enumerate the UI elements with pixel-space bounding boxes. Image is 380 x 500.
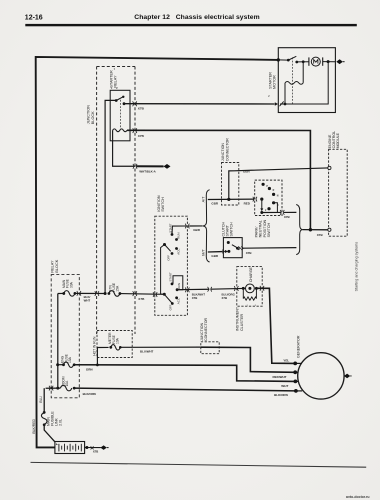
svg-text:HOT IN RUN: HOT IN RUN	[92, 336, 96, 356]
battery plus terminal label	[56, 442, 58, 446]
svg-text:ENGFUSE15A: ENGFUSE15A	[61, 353, 72, 363]
connector at junction block edge (relay sw out)	[133, 101, 137, 106]
wire label YEL	[283, 359, 289, 363]
instrument cluster label	[236, 306, 244, 331]
branch label M/T	[202, 248, 206, 255]
svg-text:ENGINECONTROLMODULE: ENGINECONTROLMODULE	[328, 131, 340, 149]
svg-text:WHT: WHT	[84, 299, 91, 303]
fuse BTN 15A (junction block)	[108, 291, 165, 297]
wire label X7B (row1)	[138, 297, 145, 301]
generator label	[296, 335, 300, 358]
fuse label MAIN FUSE 30A	[62, 278, 73, 288]
wire label BLU	[39, 396, 43, 403]
wire motor to B terminal	[323, 60, 336, 63]
starter S-terminal entry arrow	[275, 102, 278, 105]
connector at junction block right edge (row1)	[133, 291, 137, 296]
connector diamond (starter B+)	[336, 59, 344, 64]
svg-text:1: 1	[247, 305, 249, 307]
junction block enclosure (dashed)	[97, 67, 135, 335]
svg-text:BLK/RED: BLK/RED	[32, 419, 36, 434]
svg-text:BTNFUSE15A: BTNFUSE15A	[108, 282, 119, 292]
park/neutral selector path	[260, 199, 263, 211]
relay pin numbers	[111, 88, 118, 90]
charge lamp label	[249, 266, 253, 282]
connector label X7B (battery)	[93, 450, 98, 454]
generator terminal E	[294, 389, 302, 393]
wire label GBR (to ECM)	[243, 170, 251, 174]
relay plunger dashed link	[119, 100, 121, 129]
park/neutral contact D	[272, 201, 279, 207]
park/neutral D-branch	[274, 203, 278, 213]
wire label WHT (generator)	[281, 384, 288, 388]
park/neutral contact P	[262, 183, 269, 188]
starter relay label	[109, 70, 117, 88]
wire label GBR (ignition out)	[193, 228, 201, 232]
page number label 12-16	[25, 14, 43, 21]
fuse ENG 15A (row2)	[58, 362, 76, 368]
ECM terminal (starter signal)	[328, 228, 331, 231]
svg-text:ROOM10A: ROOM10A	[61, 376, 69, 386]
park/neutral position switch enclosure (dashed)	[255, 180, 282, 215]
wire relay coil to starter S-terminal node	[127, 130, 310, 229]
svg-text:avto-doctor.ru: avto-doctor.ru	[346, 495, 370, 499]
connector diamond WHT/BLK-A	[164, 164, 171, 169]
relay contact feed wire (from fuse row)	[104, 100, 117, 295]
wire label X7B (merge)	[317, 233, 324, 237]
wire GBR M/T branch	[208, 251, 223, 253]
junction connector 1 enclosure (dashed)	[222, 163, 239, 206]
header rule	[25, 24, 357, 26]
ignition upper contact RUN	[175, 233, 180, 241]
connector diamond (battery feed to other circuits)	[100, 445, 108, 450]
fuse ROOM 10A (row3)	[46, 385, 76, 391]
connector at ignition switch exit (IG2)	[185, 288, 189, 293]
connector at ignition switch exit (START)	[185, 224, 189, 229]
park/neutral contact N	[272, 193, 279, 198]
svg-text:GBR: GBR	[211, 254, 219, 258]
svg-text:BLU: BLU	[39, 396, 43, 403]
relay block enclosure (dashed)	[51, 275, 79, 398]
wire label X7B (coil wire)	[138, 134, 145, 138]
svg-text:GENERATOR: GENERATOR	[296, 335, 300, 358]
svg-text:2: 2	[265, 210, 267, 212]
ignition upper contact OFF	[166, 252, 173, 261]
coil ground-side lead	[284, 83, 287, 106]
svg-text:X7B: X7B	[222, 296, 228, 300]
clutch switch exit arrows	[238, 246, 243, 250]
generator terminal B	[294, 380, 299, 384]
vertical feed bus from battery	[56, 294, 59, 390]
watermark	[346, 495, 370, 499]
wire label BLK/WHT (row1)	[84, 295, 91, 303]
wire label BLU/ORG X7B	[222, 293, 236, 300]
clutch start switch label	[222, 222, 234, 237]
starter solenoid plunger dashed	[292, 57, 294, 103]
svg-text:CLUTCHSTARTSWITCH: CLUTCHSTARTSWITCH	[222, 222, 234, 237]
wire label GBR (A/T)	[211, 201, 219, 205]
starter motor label	[268, 72, 276, 89]
connector at park/neutral entry	[253, 197, 257, 202]
ignition lower contact RUN	[176, 283, 181, 291]
fuse label BTN FUSE 15A	[108, 282, 119, 292]
wire WHT/BLK-A	[137, 165, 164, 167]
connector at park/neutral exit	[280, 210, 284, 215]
connector pair (IG2 harness)	[208, 287, 212, 292]
instrument cluster enclosure (dashed)	[237, 267, 262, 307]
fuse label METER FUSE 10A	[108, 332, 119, 344]
wire relay switched output X7B	[124, 103, 275, 105]
transmission split brace	[203, 190, 210, 262]
wire label GRN (row2)	[86, 368, 93, 372]
wire label BLK/ORN (generator)	[274, 393, 288, 397]
wire BLU/WHT meter fuse to junction connector	[132, 346, 201, 348]
starter solenoid pull-in coil	[285, 82, 303, 85]
junction connector 2 label	[200, 318, 208, 341]
wire X7B to merge brace (A/T)	[284, 211, 297, 213]
svg-text:RUN: RUN	[177, 233, 181, 239]
svg-text:JUNCTIONCONNECTOR: JUNCTIONCONNECTOR	[221, 138, 229, 161]
starter motor box	[278, 48, 335, 113]
svg-text:2: 2	[268, 96, 270, 98]
wire GBR A/T branch	[208, 198, 255, 200]
svg-text:BLU/WHT: BLU/WHT	[140, 350, 154, 354]
svg-text:P: P	[266, 186, 268, 188]
connector at ignition switch entry	[153, 292, 157, 297]
fusible link label	[47, 411, 63, 426]
ignition lower contact ACC	[175, 296, 180, 304]
wire park/neutral output	[260, 211, 281, 214]
fuse label ROOM 10A	[61, 376, 69, 386]
ignition start-run bridge	[173, 276, 183, 290]
footer rule	[31, 462, 367, 467]
svg-text:A/T: A/T	[202, 196, 206, 203]
svg-text:GBR: GBR	[211, 201, 219, 205]
svg-text:GBR: GBR	[193, 228, 201, 232]
wire label RED/WHT (generator)	[273, 375, 287, 379]
clutch switch entry arrows	[222, 250, 228, 254]
wire clutch switch output to merge brace (M/T)	[243, 247, 296, 250]
wire label BLK/WHT X7B	[192, 293, 206, 300]
ignition lower bank pivot	[163, 293, 166, 296]
hot-in-run enclosure (dashed)	[97, 331, 132, 358]
park/neutral contact L	[265, 207, 271, 212]
svg-text:X7B: X7B	[192, 296, 198, 300]
starter pin 2 label	[268, 96, 270, 98]
ignition lower contact OFF	[169, 302, 174, 310]
wire GBR to split brace	[189, 225, 202, 227]
lamp parallel resistor	[243, 288, 256, 300]
meter fuse feed stub	[96, 347, 109, 366]
svg-text:JUNCTIONCONNECTOR: JUNCTIONCONNECTOR	[200, 318, 208, 341]
svg-text:JUNCTIONBLOCK: JUNCTIONBLOCK	[87, 105, 95, 124]
relay coil	[113, 129, 127, 132]
svg-text:CHARGE: CHARGE	[249, 266, 253, 282]
junction connector 2 enclosure (dashed)	[201, 342, 219, 354]
junction block pin mark	[114, 69, 116, 71]
svg-text:GRN: GRN	[86, 368, 93, 372]
junction node in connector 1	[227, 198, 230, 201]
svg-text:STARTERMOTOR: STARTERMOTOR	[268, 72, 276, 89]
svg-text:X7B: X7B	[246, 251, 253, 255]
svg-text:X7B: X7B	[138, 297, 145, 301]
connector at cluster exit	[260, 286, 264, 291]
svg-text:5: 5	[114, 69, 116, 71]
main fusible link FL 2.0L	[41, 388, 55, 442]
wire YEL lamp to generator	[256, 288, 294, 363]
wire label GBR (M/T)	[211, 254, 219, 258]
svg-text:RED/WHT: RED/WHT	[273, 375, 287, 379]
wire ignition START output GBR	[172, 226, 187, 235]
svg-text:PARK/NEUTRALPOSITIONSWITCH: PARK/NEUTRALPOSITIONSWITCH	[254, 219, 271, 237]
svg-text:RED: RED	[244, 201, 251, 205]
wire merged starter-signal	[303, 228, 328, 231]
motor M1	[309, 57, 323, 66]
starter B+ node	[277, 58, 280, 61]
wire label X7B (clutch out)	[246, 251, 253, 255]
wire label BLK/ORN (row3)	[83, 392, 96, 396]
battery B1	[55, 442, 85, 454]
wire label BLK/RED	[32, 419, 36, 434]
svg-text:X7B: X7B	[317, 233, 324, 237]
connector at cluster entry	[234, 286, 238, 291]
chapter title	[134, 14, 259, 21]
fuse METER 10A	[109, 345, 132, 351]
starter solenoid contact	[278, 56, 298, 63]
connector at relay block edge (row1)	[77, 291, 81, 296]
wire RED/WHT to generator	[201, 347, 295, 372]
svg-text:R: R	[273, 190, 275, 192]
svg-text:2: 2	[255, 305, 257, 307]
connector at junction block edge (relay coil out)	[133, 128, 137, 133]
svg-text:OFF: OFF	[166, 255, 170, 261]
wire label WHT/BLK-A	[139, 169, 156, 173]
relay coil left lead to connector	[113, 130, 135, 166]
ECM terminal (GBR input)	[328, 166, 331, 169]
starter relay K1 box	[110, 90, 130, 141]
clutch switch contact upper	[227, 241, 230, 244]
wire generator output with diamond	[344, 374, 352, 379]
svg-text:IGNITIONSWITCH: IGNITIONSWITCH	[157, 195, 165, 212]
svg-text:YEL: YEL	[283, 359, 289, 363]
ignition switch enclosure (dashed)	[155, 216, 188, 315]
ignition upper bank pivot and link	[161, 243, 166, 294]
svg-text:BLK/ORN: BLK/ORN	[274, 393, 288, 397]
svg-text:INSTRUMENTCLUSTER: INSTRUMENTCLUSTER	[236, 306, 244, 331]
wire label RED (to park/neutral sw)	[244, 201, 251, 205]
fuse label ENG FUSE 15A	[61, 353, 72, 363]
svg-text:Chapter 12 Chassis electrica: Chapter 12 Chassis electrical system	[134, 14, 259, 21]
wire label X7B (park/neutral out)	[284, 215, 291, 219]
svg-text:Starting and charging systems: Starting and charging systems	[354, 242, 358, 292]
svg-text:START: START	[169, 272, 173, 281]
junction connector 1 label	[221, 138, 229, 161]
ignition lower blade	[164, 294, 171, 302]
ignition switch label	[157, 195, 165, 212]
wire battery positive cable BLK/RED (top + left run)	[36, 57, 279, 448]
wire battery to connector X7B	[85, 446, 101, 449]
ignition upper contact START	[168, 223, 173, 236]
wire ignition IG2 output	[177, 288, 209, 290]
park/neutral switch label	[254, 219, 271, 237]
wire label X7B (relay out)	[138, 107, 145, 111]
wire IG2 to instrument cluster	[211, 287, 244, 290]
ignition lower contact START	[169, 272, 174, 285]
fuse MAIN 30A	[58, 291, 105, 297]
engine control module enclosure (dashed)	[329, 149, 348, 236]
wire label BLU/WHT	[140, 350, 154, 354]
wire contact to motor	[297, 60, 309, 63]
transmission merge brace	[296, 205, 302, 255]
svg-text:X7B: X7B	[138, 134, 145, 138]
junction block label	[87, 105, 95, 124]
svg-text:WHT: WHT	[281, 384, 288, 388]
connector at junction block edge (WHT/BLK-A)	[133, 164, 137, 169]
svg-text:MAINFUSIBLELINK2.0L: MAINFUSIBLELINK2.0L	[47, 411, 63, 426]
svg-text:BLK/ORN: BLK/ORN	[83, 392, 96, 396]
charge warning lamp	[242, 284, 258, 293]
svg-text:X7B: X7B	[138, 107, 145, 111]
svg-text:X7B: X7B	[93, 450, 98, 454]
connector at relay block left edge (row3)	[49, 386, 54, 391]
coil to motor-wire tap	[302, 62, 304, 83]
svg-text:GBR: GBR	[243, 170, 251, 174]
svg-text:STARTERRELAY: STARTERRELAY	[109, 70, 117, 88]
svg-text:ACC: ACC	[177, 298, 181, 304]
svg-text:WHT/BLK-A: WHT/BLK-A	[139, 169, 156, 173]
generator terminal S	[293, 370, 298, 374]
svg-text:N: N	[277, 196, 279, 198]
svg-text:MAINFUSE30A: MAINFUSE30A	[62, 278, 73, 288]
splice at battery output	[91, 446, 94, 449]
park/neutral input node	[260, 198, 263, 201]
wire GBR to engine control module	[229, 168, 328, 199]
clutch switch blade and contact	[227, 245, 238, 253]
wire BLK/ORN row3 to generator	[74, 388, 295, 391]
relay contact switch	[115, 96, 126, 105]
wire WHT row2 to generator	[74, 365, 295, 382]
svg-text:M/T: M/T	[202, 248, 206, 255]
cluster pin marks	[247, 305, 257, 307]
park/neutral contact R	[268, 187, 275, 192]
starter terminal tick	[280, 101, 284, 106]
svg-text:METERFUSE10A: METERFUSE10A	[108, 332, 119, 344]
starter inner return wire	[280, 62, 328, 104]
generator G1	[298, 353, 344, 399]
svg-text:RELAYBLOCK: RELAYBLOCK	[51, 259, 59, 272]
svg-text:OFF: OFF	[169, 304, 173, 310]
ignition upper contact ACC	[175, 247, 180, 255]
diagram caption Starting and charging systems	[354, 242, 358, 292]
hot in run label	[92, 336, 96, 356]
ignition upper blade	[165, 245, 171, 252]
branch label A/T	[202, 196, 206, 203]
clutch start switch box	[223, 238, 242, 258]
relay block label	[51, 259, 59, 272]
generator terminal L	[293, 362, 302, 366]
engine control module label	[328, 131, 340, 149]
connector at junction block left edge (row1)	[95, 291, 99, 296]
svg-text:RUN: RUN	[177, 283, 181, 289]
svg-text:X7B: X7B	[284, 215, 291, 219]
svg-text:ACC: ACC	[177, 249, 181, 255]
svg-text:12-16: 12-16	[25, 14, 43, 21]
svg-text:+: +	[56, 442, 58, 446]
